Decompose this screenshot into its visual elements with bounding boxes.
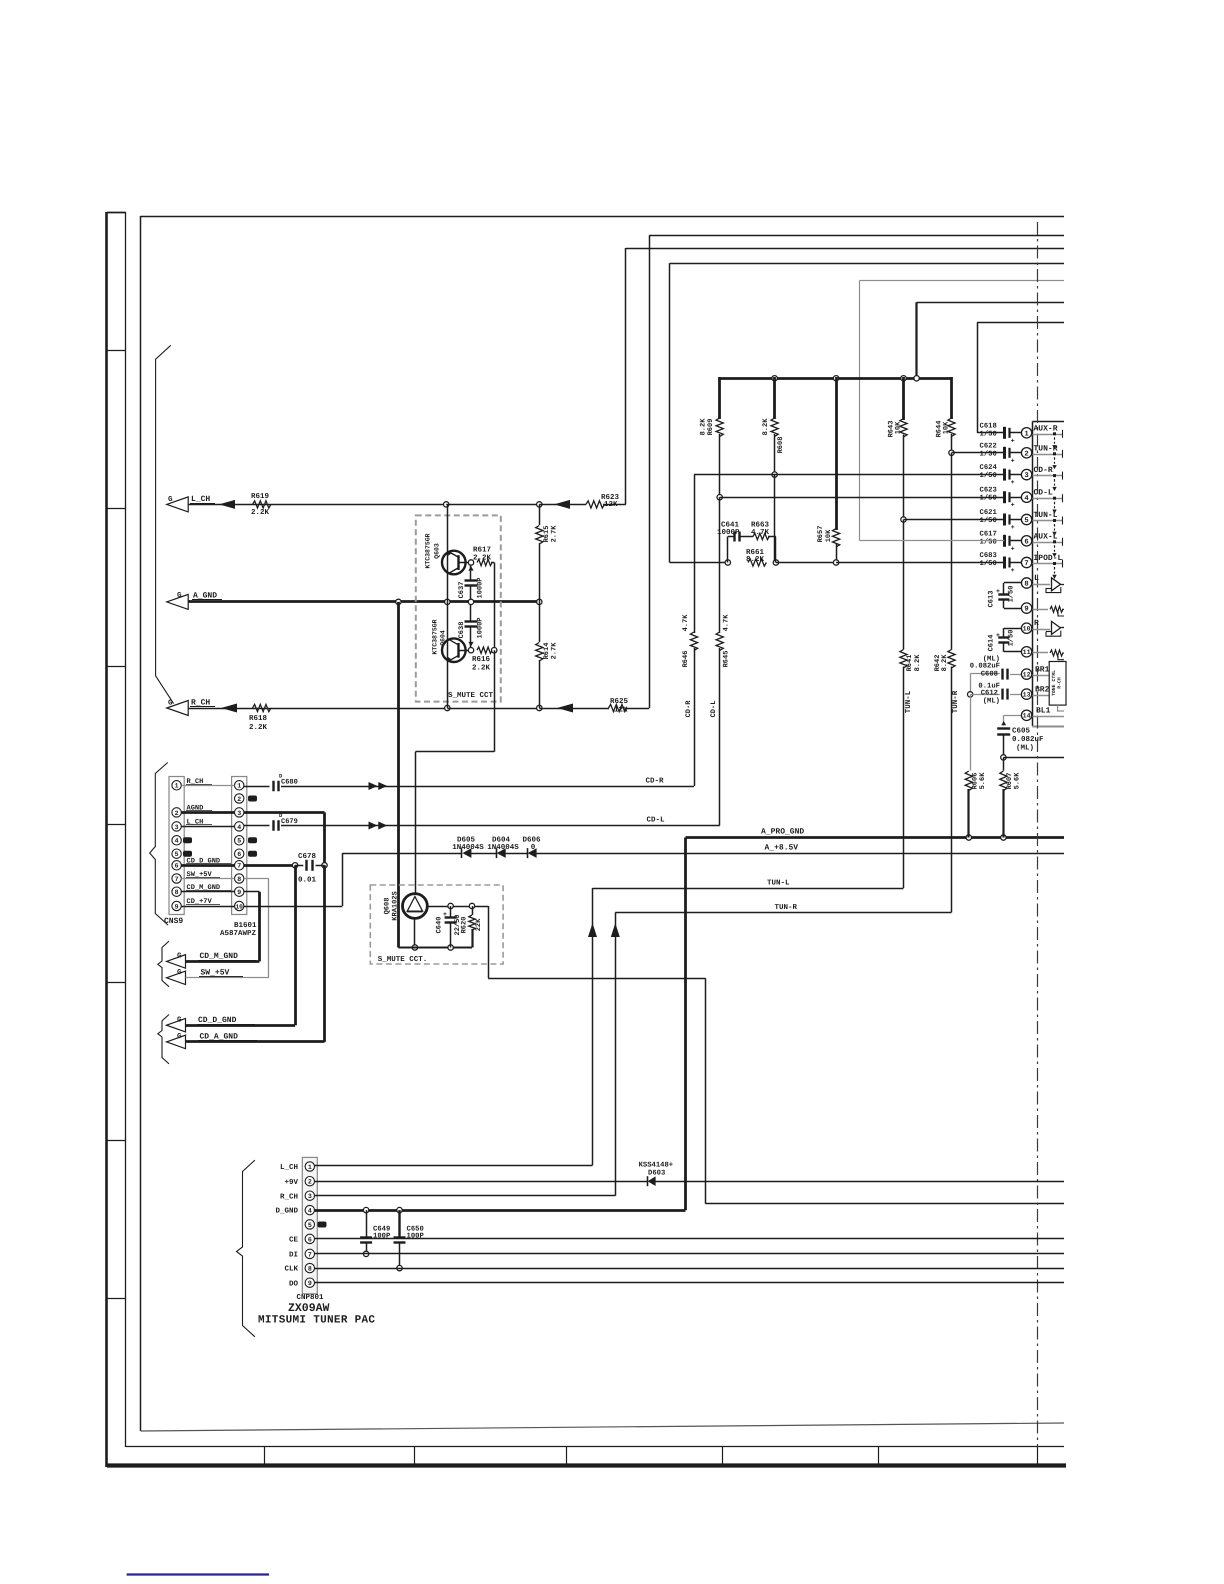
label B1601 part bbox=[220, 929, 257, 938]
resistor internal L bbox=[1050, 606, 1064, 616]
label R644 bbox=[936, 421, 944, 438]
wire CNP801 pin3 row bbox=[315, 1195, 616, 1197]
svg-text:L: L bbox=[1034, 574, 1039, 583]
label C640 bbox=[436, 917, 444, 934]
svg-text:1/50: 1/50 bbox=[1007, 586, 1016, 603]
border zone tick 4 bbox=[107, 824, 126, 826]
svg-text:C678: C678 bbox=[298, 852, 317, 861]
wire TUN-R col low bbox=[951, 667, 953, 913]
svg-text:CD-L: CD-L bbox=[1034, 489, 1053, 498]
capacitor C624 1/50 bbox=[1005, 469, 1022, 487]
label C621 bbox=[980, 509, 998, 517]
transistor Q604 KTC3875GR bbox=[442, 638, 466, 662]
wire CLK row bbox=[315, 1268, 1064, 1270]
svg-text:6: 6 bbox=[237, 851, 241, 858]
label C613 value bbox=[1007, 586, 1016, 603]
border zone tick 1 bbox=[107, 350, 126, 352]
svg-text:1000P: 1000P bbox=[717, 528, 740, 537]
label R607 value bbox=[1014, 772, 1022, 790]
border zone tick 2 bbox=[107, 508, 126, 510]
svg-text:R646: R646 bbox=[682, 651, 690, 668]
label D606 value bbox=[531, 843, 536, 852]
svg-text:G: G bbox=[168, 495, 173, 504]
node A_GND Q col bbox=[445, 599, 450, 604]
wire pin13 inside bbox=[1032, 695, 1049, 697]
svg-text:TUN-R: TUN-R bbox=[952, 690, 960, 713]
IC pin 8 bbox=[1021, 578, 1031, 589]
IC box left edge bbox=[1032, 422, 1034, 727]
node A_PRO_GND R606 bbox=[966, 835, 971, 840]
svg-text:4.7K: 4.7K bbox=[682, 614, 690, 632]
svg-text:CD_M_GND: CD_M_GND bbox=[200, 952, 239, 961]
switch wiper pin 1 bbox=[1052, 432, 1056, 449]
svg-text:4: 4 bbox=[308, 1207, 312, 1214]
switch wiper pin 3 bbox=[1052, 474, 1056, 491]
svg-text:D603: D603 bbox=[648, 1170, 665, 1178]
svg-text:10K: 10K bbox=[825, 529, 833, 542]
label ZX09AW bbox=[288, 1302, 330, 1315]
ground symbol A_GND bbox=[167, 594, 189, 609]
resistor R644 10K bbox=[948, 418, 955, 436]
ground symbol CD_D_GND bbox=[167, 1018, 186, 1031]
IC pin 13 bbox=[1021, 689, 1031, 699]
wire R608 to CD-R node bbox=[774, 434, 776, 475]
label C680 bbox=[279, 773, 298, 787]
border zone tick 7 bbox=[107, 1298, 126, 1300]
svg-text:BL1: BL1 bbox=[1036, 707, 1051, 716]
wire Q604 base bbox=[460, 650, 469, 652]
label C683 value bbox=[980, 559, 997, 568]
label R609 bbox=[707, 419, 715, 436]
title strip top line bbox=[126, 1446, 1064, 1448]
arrow CD-R 2 bbox=[378, 782, 387, 790]
label R617 value bbox=[473, 554, 492, 563]
wire C641 stem right bbox=[768, 537, 776, 563]
label L (pin8) bbox=[1034, 574, 1039, 583]
brace CNS9 group bbox=[150, 763, 168, 926]
svg-text:TUN-R: TUN-R bbox=[775, 904, 798, 912]
label R618 bbox=[249, 714, 268, 723]
label C618 bbox=[980, 422, 997, 430]
label C637 value bbox=[477, 577, 485, 598]
capacitor C608 0.082uF bbox=[1003, 669, 1008, 680]
resistor R643 10K bbox=[900, 419, 907, 437]
brace low grounds bbox=[158, 1015, 169, 1064]
IC pin 6 bbox=[1021, 536, 1031, 547]
svg-text:KTC3875GR: KTC3875GR bbox=[432, 619, 439, 654]
svg-text:13: 13 bbox=[1023, 691, 1031, 698]
svg-text:C637: C637 bbox=[458, 582, 466, 599]
label C650 value bbox=[407, 1232, 425, 1240]
resistor R663 4.7K bbox=[740, 533, 769, 539]
svg-text:2: 2 bbox=[1024, 450, 1028, 458]
wire TUN-R riser bbox=[615, 912, 617, 1195]
arrow CD-L 2 bbox=[378, 822, 387, 830]
blue revision underline bbox=[127, 1573, 269, 1575]
svg-text:1000P: 1000P bbox=[477, 577, 485, 598]
svg-text:3: 3 bbox=[308, 1193, 312, 1200]
arrow TUN-L up bbox=[588, 923, 597, 937]
IC pin 11 bbox=[1021, 647, 1031, 657]
svg-text:2.2K: 2.2K bbox=[473, 554, 492, 563]
resistor R609 8.2K bbox=[716, 418, 723, 436]
node R661 left bbox=[725, 560, 730, 565]
svg-text:R609: R609 bbox=[707, 419, 715, 436]
wire R_CH row bbox=[188, 708, 447, 710]
title strip divider 3 bbox=[566, 1447, 568, 1465]
label G (SW_+5V) bbox=[177, 968, 182, 977]
label Q603 ref bbox=[434, 543, 441, 559]
svg-text:C614: C614 bbox=[988, 635, 996, 652]
wire CNS9-3 L_CH bbox=[181, 826, 234, 828]
svg-text:8.2K: 8.2K bbox=[762, 418, 770, 436]
connector B1601 body bbox=[232, 777, 247, 915]
svg-text:2: 2 bbox=[308, 1179, 312, 1186]
terminator B1601 pin5 bbox=[248, 837, 257, 843]
wire bus corner to R644 bbox=[950, 377, 953, 419]
arrow into L_CH bbox=[554, 500, 570, 509]
wire C605 node to edge bbox=[1003, 757, 1064, 759]
title strip divider 6 bbox=[1037, 1447, 1039, 1465]
svg-text:4.7K: 4.7K bbox=[751, 529, 770, 537]
label TUN-R bbox=[775, 904, 798, 912]
label R623 value bbox=[604, 500, 618, 509]
svg-text:1/50: 1/50 bbox=[980, 429, 997, 438]
B1601 pin 8 bbox=[235, 874, 244, 883]
wire Q608 emitter bbox=[414, 918, 416, 947]
resistor R616 2.2K bbox=[477, 647, 492, 653]
resistor R619 2.2K bbox=[253, 501, 271, 508]
wire CD_D_GND row bbox=[186, 1024, 296, 1027]
wire pin 6 inside bbox=[1032, 542, 1062, 544]
node bus-R608 bbox=[772, 376, 777, 381]
transistor Q603 KTC3875GR bbox=[442, 551, 466, 575]
label C622 value bbox=[980, 449, 997, 458]
TONE CTRL box bbox=[1049, 662, 1066, 706]
label C649 value bbox=[373, 1232, 391, 1240]
arrow CD-L 1 bbox=[369, 822, 378, 830]
capacitor C623 1/50 bbox=[1005, 491, 1022, 509]
label R646 value bbox=[682, 614, 690, 632]
B1601 pin 9 bbox=[235, 887, 244, 896]
resistor R657 top lead bbox=[835, 377, 838, 530]
wire CNS9-9 CD_+7V bbox=[181, 906, 234, 908]
label net TUN-R bbox=[1034, 444, 1058, 453]
wire net from R625 to edge bbox=[649, 235, 1064, 237]
svg-text:AUX-L: AUX-L bbox=[1034, 532, 1058, 541]
wire CNS9-1 R_CH bbox=[181, 785, 234, 787]
wire SW_+5V jog bbox=[244, 879, 269, 978]
svg-text:3: 3 bbox=[175, 824, 179, 831]
wire R643 to TUN-L node bbox=[903, 435, 905, 520]
wire R614 bottom bbox=[539, 660, 541, 708]
capacitor C618 1/50 bbox=[1005, 427, 1022, 445]
wire C612 link bbox=[970, 694, 1000, 696]
svg-text:2.2K: 2.2K bbox=[472, 664, 491, 673]
svg-text:A587AWPZ: A587AWPZ bbox=[220, 929, 257, 938]
node D_GND C649 bbox=[363, 1207, 368, 1212]
label A_GND bbox=[192, 592, 222, 601]
wire pin4 feed bbox=[720, 497, 1005, 499]
label R-CH bbox=[1057, 677, 1063, 689]
label R642 bbox=[934, 655, 942, 672]
wire R646 to CD-R corner bbox=[694, 648, 696, 786]
node bus-feed bbox=[914, 376, 919, 381]
wire net ipod row to edge bbox=[670, 263, 1064, 265]
B1601 pin 5 bbox=[235, 836, 244, 845]
svg-text:A_PRO_GND: A_PRO_GND bbox=[761, 828, 804, 837]
wire CNS9-7 SW_+5V bbox=[181, 878, 234, 880]
wire R_CH to R625 bbox=[539, 708, 609, 710]
svg-text:4: 4 bbox=[1024, 495, 1029, 503]
label MITSUMI TUNER PAC bbox=[258, 1315, 375, 1327]
label C613 bbox=[988, 591, 996, 608]
svg-text:10K: 10K bbox=[943, 421, 951, 434]
wire A_GND riser bbox=[397, 602, 400, 948]
label C649 bbox=[373, 1226, 390, 1234]
CNS9 pin 2 bbox=[172, 808, 181, 817]
wire AGND riser low bbox=[323, 865, 326, 1042]
label D605 bbox=[457, 836, 476, 845]
label R616 value bbox=[472, 664, 491, 673]
svg-text:1000P: 1000P bbox=[477, 617, 485, 638]
svg-text:CD-L: CD-L bbox=[710, 701, 718, 718]
wire A_PRO_GND row bbox=[686, 836, 1065, 839]
svg-text:CD_+7V: CD_+7V bbox=[187, 898, 213, 906]
page bottom thick bar bbox=[107, 1463, 1066, 1467]
wire Q603 base bbox=[460, 562, 469, 564]
wire riser AUX-R bbox=[977, 322, 979, 433]
wire pin5 feed bbox=[904, 519, 1005, 521]
wire pin 2 inside bbox=[1032, 454, 1062, 456]
svg-text:1: 1 bbox=[175, 783, 179, 790]
label net AUX-L bbox=[1034, 532, 1058, 541]
arrow L_CH bbox=[219, 500, 235, 509]
svg-text:1/50: 1/50 bbox=[980, 537, 997, 546]
wire CE row bbox=[315, 1238, 1064, 1240]
diode D604 1N4004S bbox=[497, 848, 506, 858]
label net TUN-L bbox=[1034, 511, 1058, 520]
dash-dot section line bbox=[1037, 222, 1039, 1447]
wire TUN-L riser bbox=[592, 888, 594, 1165]
node A_PRO_GND R607 bbox=[1001, 835, 1006, 840]
terminator B1601 pin6 bbox=[248, 851, 257, 857]
svg-text:L_CH: L_CH bbox=[280, 1163, 298, 1172]
svg-text:1/50: 1/50 bbox=[980, 559, 997, 568]
wire R_CH row right bbox=[447, 708, 539, 710]
wire Q608 base row bbox=[427, 906, 488, 908]
wire pin3 feed bbox=[694, 474, 1005, 476]
label CD-L vertical bbox=[710, 701, 718, 718]
arrow TUN-R up bbox=[611, 923, 620, 937]
node L_CH Q603 bbox=[444, 502, 449, 507]
schematic frame bottom edge bbox=[141, 1423, 1065, 1431]
svg-text:7: 7 bbox=[308, 1251, 312, 1258]
wire CNP801 pin4 row bbox=[315, 1209, 686, 1212]
svg-text:C640: C640 bbox=[436, 917, 444, 934]
wire pin14 jog bbox=[1004, 715, 1022, 725]
capacitor C622 1/50 bbox=[1005, 447, 1022, 465]
wire mute out jog bbox=[488, 906, 1064, 1204]
schematic frame top edge bbox=[141, 216, 1065, 218]
svg-text:C683: C683 bbox=[980, 552, 997, 560]
label CLK (CNP801) bbox=[284, 1265, 298, 1274]
label C638 value bbox=[477, 617, 485, 638]
node C678 right bbox=[322, 863, 327, 868]
CNP801 pin 4 bbox=[305, 1205, 314, 1214]
wire tone box out bbox=[1058, 705, 1064, 711]
label net IPOD-L bbox=[1034, 554, 1063, 563]
svg-text:(ML): (ML) bbox=[1016, 744, 1034, 753]
border zone tick 5 bbox=[107, 982, 126, 984]
svg-text:R616: R616 bbox=[472, 655, 491, 664]
wire R645 to CD-L corner bbox=[719, 648, 721, 826]
label TONE CTRL bbox=[1051, 670, 1057, 696]
wire R657 to ipod row bbox=[836, 544, 838, 563]
B1601 pin 1 bbox=[235, 781, 244, 790]
label R_CH (CNS9) bbox=[186, 778, 212, 786]
svg-text:2.7K: 2.7K bbox=[551, 525, 559, 543]
label R609 value bbox=[700, 418, 708, 436]
label CE (CNP801) bbox=[289, 1236, 299, 1245]
svg-text:5.6K: 5.6K bbox=[1014, 772, 1022, 790]
resistor R607 5.6K bbox=[1000, 771, 1007, 791]
svg-text:9: 9 bbox=[1024, 606, 1028, 614]
title strip divider 2 bbox=[414, 1447, 416, 1465]
resistor internal R bbox=[1050, 650, 1064, 660]
svg-text:R641: R641 bbox=[906, 655, 914, 672]
wire R615 bottom bbox=[539, 543, 541, 602]
label Q604 ref bbox=[440, 630, 447, 646]
label R642 value bbox=[941, 654, 949, 672]
wire CD-R from B1601-1 bbox=[244, 786, 270, 788]
label L_CH (CNS9) bbox=[186, 819, 212, 827]
node R_CH R614 bbox=[537, 705, 542, 710]
capacitor C613 1/50 bbox=[996, 583, 1021, 609]
svg-text:CD-R: CD-R bbox=[646, 777, 665, 786]
svg-text:C638: C638 bbox=[458, 622, 466, 639]
svg-text:8.2K: 8.2K bbox=[746, 555, 765, 564]
IC box top edge bbox=[1032, 421, 1064, 423]
label C638 bbox=[458, 622, 466, 639]
svg-text:2.2K: 2.2K bbox=[251, 508, 270, 517]
CNP801 pin 2 bbox=[305, 1177, 314, 1186]
label TUN-R vertical bbox=[952, 690, 960, 713]
label C641 bbox=[721, 521, 740, 530]
wire riser AUX-L bbox=[859, 280, 861, 541]
label D603 bbox=[648, 1170, 665, 1178]
terminator CNS9 pin4 bbox=[183, 837, 192, 843]
svg-text:5: 5 bbox=[1024, 517, 1028, 525]
wire pin 2 end tick bbox=[1062, 450, 1064, 458]
resistor R623 12K bbox=[586, 501, 604, 508]
label net CD-L bbox=[1034, 489, 1053, 498]
svg-text:KRA102S: KRA102S bbox=[392, 891, 400, 920]
label C640 value bbox=[453, 914, 462, 935]
capacitor C605 0.082uF bbox=[997, 721, 1010, 735]
svg-text:CD-R: CD-R bbox=[1034, 466, 1053, 475]
svg-text:8.2K: 8.2K bbox=[914, 654, 922, 672]
wire CD_A_GND row bbox=[186, 1040, 325, 1043]
label C623 value bbox=[980, 494, 997, 503]
label CD_D_GND arrow bbox=[197, 1016, 255, 1025]
svg-text:R: R bbox=[1034, 619, 1039, 628]
svg-text:7: 7 bbox=[237, 863, 241, 870]
label C612 value bbox=[978, 682, 1000, 690]
svg-text:C608: C608 bbox=[981, 670, 998, 678]
svg-text:S_MUTE CCT: S_MUTE CCT bbox=[448, 691, 494, 700]
label C623 bbox=[980, 487, 997, 495]
svg-text:1: 1 bbox=[1024, 430, 1029, 438]
svg-text:12K: 12K bbox=[614, 706, 628, 715]
label C650 bbox=[407, 1226, 424, 1234]
svg-text:TUN-L: TUN-L bbox=[1034, 511, 1058, 520]
terminator CNP801 pin5 bbox=[318, 1222, 327, 1228]
resistor R606 5.6K bbox=[965, 771, 972, 791]
arrow R_CH bbox=[221, 704, 237, 713]
CNS9 pin 3 bbox=[172, 822, 181, 831]
svg-text:Q603: Q603 bbox=[434, 543, 441, 559]
label C617 value bbox=[980, 537, 997, 546]
diode D603 KSS4148 bbox=[648, 1176, 656, 1186]
label D606 bbox=[522, 836, 541, 845]
wire base node column bbox=[494, 563, 496, 651]
capacitor C679 bbox=[274, 820, 279, 831]
node L_CH R615 bbox=[537, 502, 542, 507]
wire R608 col to ipod node bbox=[774, 475, 776, 563]
svg-text:ZX09AW: ZX09AW bbox=[288, 1302, 330, 1315]
IC pin 10 bbox=[1021, 623, 1031, 633]
wire R607 top bbox=[1003, 757, 1005, 770]
node A_GND cap col bbox=[468, 599, 473, 604]
label net CD-R bbox=[1034, 466, 1053, 475]
svg-text:D_GND: D_GND bbox=[275, 1207, 298, 1216]
svg-text:TUN-L: TUN-L bbox=[905, 690, 913, 713]
resistor R615 2.7K bbox=[536, 526, 543, 544]
svg-text:G: G bbox=[177, 591, 182, 600]
label R619 bbox=[251, 492, 270, 501]
svg-text:1: 1 bbox=[237, 783, 241, 790]
label L_CH bbox=[190, 495, 215, 504]
label Q608 ref bbox=[384, 898, 392, 915]
svg-text:9: 9 bbox=[237, 889, 241, 896]
wire ipod row mid bbox=[776, 562, 836, 564]
IC pin 7 bbox=[1021, 557, 1031, 568]
wire pin 6 end tick bbox=[1062, 538, 1064, 546]
wire A_PRO_GND riser bbox=[684, 838, 687, 1211]
label R619 value bbox=[251, 508, 270, 517]
label DO (CNP801) bbox=[289, 1279, 299, 1288]
B1601 pin 7 bbox=[235, 861, 244, 870]
svg-text:2: 2 bbox=[237, 796, 241, 803]
label C608 value bbox=[970, 663, 1000, 671]
wire riser ipod row bbox=[669, 263, 671, 562]
resistor R625 12K bbox=[609, 704, 627, 711]
wire pin9 inside bbox=[1032, 609, 1048, 611]
svg-text:2.7K: 2.7K bbox=[551, 642, 559, 660]
svg-text:10: 10 bbox=[235, 903, 243, 910]
svg-text:+: + bbox=[443, 911, 447, 918]
switch wiper pin 6 bbox=[1052, 540, 1056, 557]
label C605 ML bbox=[1016, 744, 1034, 753]
ground symbol CD_A_GND bbox=[167, 1035, 186, 1049]
label R (pin10) bbox=[1034, 619, 1039, 628]
wire mute drive down bbox=[494, 650, 496, 752]
svg-text:+: + bbox=[996, 632, 1000, 639]
node CD-L column bbox=[717, 495, 722, 500]
wire A_GND row bbox=[188, 600, 539, 603]
label C614 bbox=[988, 635, 996, 652]
